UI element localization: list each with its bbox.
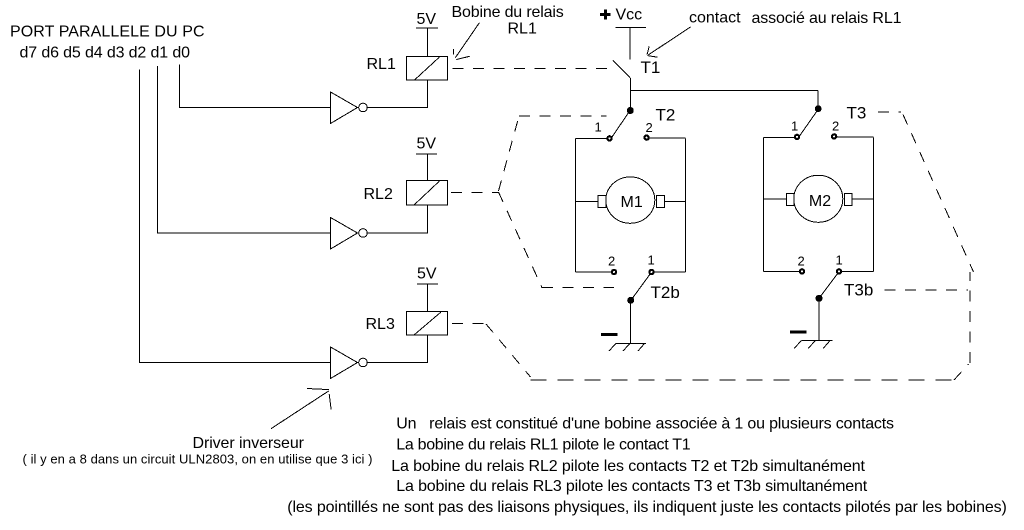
svg-text:1: 1 (648, 253, 655, 268)
svg-text:La bobine du relais RL3 pilote: La bobine du relais RL3 pilote les conta… (396, 478, 867, 495)
svg-text:d7 d6 d5 d4 d3 d2 d1 d0: d7 d6 d5 d4 d3 d2 d1 d0 (20, 45, 191, 62)
svg-text:Un relais est constitué d'un: Un relais est constitué d'une bobine ass… (396, 416, 894, 433)
svg-text:T2: T2 (656, 106, 676, 125)
svg-text:La bobine du relais RL2 pilote: La bobine du relais RL2 pilote les conta… (391, 458, 865, 475)
svg-text:RL1: RL1 (508, 21, 537, 38)
svg-text:T2b: T2b (651, 283, 680, 302)
svg-text:PORT PARALLELE DU PC: PORT PARALLELE DU PC (10, 24, 205, 41)
svg-text:5V: 5V (417, 11, 437, 28)
svg-text:2: 2 (798, 254, 805, 269)
svg-text:Bobine du relais: Bobine du relais (452, 4, 564, 21)
svg-text:(les pointillés ne sont pas de: (les pointillés ne sont pas des liaisons… (287, 499, 1007, 516)
svg-text:2: 2 (646, 120, 653, 135)
svg-text:Vcc: Vcc (616, 7, 643, 24)
svg-text:M1: M1 (621, 194, 643, 211)
svg-text:associé au relais RL1: associé au relais RL1 (752, 10, 902, 27)
svg-text:5V: 5V (417, 136, 437, 153)
svg-text:5V: 5V (417, 266, 437, 283)
svg-text:2: 2 (832, 119, 839, 134)
svg-text:T3: T3 (847, 104, 867, 123)
svg-text:RL2: RL2 (364, 186, 393, 203)
svg-text:1: 1 (836, 253, 843, 268)
svg-text:( il y en a 8 dans un circuit: ( il y en a 8 dans un circuit ULN2803, o… (23, 452, 373, 467)
svg-text:RL1: RL1 (367, 56, 396, 73)
svg-text:T3b: T3b (844, 281, 873, 300)
svg-text:1: 1 (791, 119, 798, 134)
svg-text:2: 2 (608, 254, 615, 269)
svg-text:Driver inverseur: Driver inverseur (193, 435, 305, 452)
svg-text:RL3: RL3 (366, 316, 395, 333)
svg-text:M2: M2 (809, 193, 831, 210)
svg-text:T1: T1 (641, 58, 661, 77)
svg-text:contact: contact (689, 10, 741, 27)
svg-text:La bobine du relais RL1 pilote: La bobine du relais RL1 pilote le contac… (396, 437, 690, 454)
svg-text:1: 1 (595, 120, 602, 135)
